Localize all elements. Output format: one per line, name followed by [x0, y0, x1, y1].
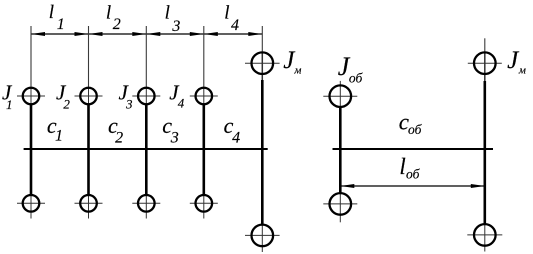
svg-text:м: м	[518, 65, 526, 77]
svg-text:2: 2	[115, 129, 123, 146]
svg-text:l: l	[165, 3, 170, 24]
svg-text:l: l	[49, 2, 54, 23]
svg-text:3: 3	[170, 129, 179, 146]
svg-text:1: 1	[55, 128, 63, 145]
svg-text:4: 4	[231, 17, 239, 34]
svg-text:l: l	[399, 154, 405, 179]
svg-text:м: м	[293, 65, 301, 77]
svg-text:l: l	[106, 3, 111, 24]
svg-text:3: 3	[171, 18, 180, 35]
svg-text:4: 4	[178, 96, 185, 111]
svg-text:об: об	[408, 122, 423, 137]
svg-text:об: об	[349, 71, 364, 86]
svg-text:2: 2	[63, 97, 70, 112]
svg-text:1: 1	[6, 97, 13, 112]
svg-text:4: 4	[232, 129, 240, 146]
svg-text:2: 2	[113, 16, 121, 33]
svg-text:1: 1	[57, 16, 65, 33]
svg-text:l: l	[224, 3, 229, 24]
svg-text:3: 3	[125, 97, 133, 112]
svg-text:об: об	[406, 166, 421, 181]
